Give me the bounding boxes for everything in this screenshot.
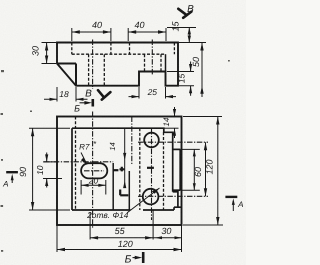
hidden line rib left [110,43,112,55]
dimension 20: extension lines [81,180,106,195]
hidden line right step [173,43,175,55]
svg-text:120: 120 [118,239,133,249]
svg-text:60: 60 [193,167,203,177]
svg-text:40: 40 [92,20,102,30]
front view outline [57,43,178,86]
hidden line recess left wall [71,43,73,55]
plan right flange slot right edge [179,149,181,190]
svg-text:14: 14 [108,142,117,150]
leader R7 [81,153,87,165]
dimension 25: dim line [129,96,177,98]
svg-text:В: В [187,4,194,15]
dimension 40 left: extension lines [72,28,111,41]
arrowheads [31,28,220,252]
arrow 50 dim [200,43,203,51]
section marker A left [6,172,18,183]
svg-text:30: 30 [161,226,171,236]
svg-text:A: A [237,200,243,209]
arrow 14 top right dim [173,109,176,117]
center line plan horizontal [44,161,113,163]
arrow 2 holes leader [152,188,160,194]
svg-text:R7: R7 [79,142,90,151]
dimension 120 bottom: dim line [57,249,182,251]
chamfer edge vertical [75,64,77,86]
arrow 14 middle dim [123,153,126,161]
dimension 14 top right: extension line [164,127,179,129]
arrow 40 right dim [128,30,136,33]
dimension 25: extension lines [139,87,166,99]
hidden line hole right [160,54,162,71]
hidden line slot left wall [88,54,90,85]
plan right flange slot bottom [173,189,181,191]
arrow 30 dim [45,43,48,51]
svg-text:30: 30 [31,46,41,56]
dimension 40 right: extension lines [128,28,166,41]
svg-text:90: 90 [18,167,28,177]
svg-text:14: 14 [162,117,171,126]
dimension 18: extension lines [57,87,76,102]
center line hole axis front [151,40,153,75]
center line oval horizontal [84,170,104,172]
dimension 10: dim line [46,153,48,188]
arrow 90 dim [31,128,34,136]
svg-text:120: 120 [205,159,215,174]
svg-text:55: 55 [115,226,126,236]
dimension 15 right: dim line [190,62,192,96]
plan hidden line right [163,132,165,210]
hole 2 circle [143,189,159,205]
center line holes axis plan [151,129,153,220]
svg-text:2отв. Ф14: 2отв. Ф14 [86,210,129,220]
svg-text:20: 20 [88,176,99,186]
arrow 18 dim [50,98,58,101]
arrow 15 right dim [189,64,192,72]
center line hole 2 horizontal [138,195,208,197]
arrow 25 dim [132,95,140,98]
view arrow B top [178,9,191,18]
section marker B top [80,99,93,107]
dimension 120 right: dim line [217,117,219,226]
leader 2 holes [128,188,160,213]
arrow 120 bottom dim [57,248,65,251]
plan right flange slot top [173,148,181,150]
plan right flange notch [173,192,182,207]
arrow 10 dim [45,154,48,162]
dimension 90: extension lines [29,128,70,210]
svg-text:18: 18 [59,89,69,99]
dimension 120 bottom: extension lines [56,225,58,252]
dimension 55: extension lines [90,211,153,240]
dimension 50: extension line [179,42,206,44]
arrow 55 dim [90,236,98,239]
dimension 14 middle: dim line [124,129,126,189]
section marker A right [225,197,237,211]
center line hole 1 horizontal [138,141,208,143]
chamfer edge horizontal [57,63,76,65]
plan view outer rectangle [57,117,182,226]
dimension 90: dim line [32,128,34,210]
dimension 40 right: dim line [128,31,166,33]
scan speckles [1,60,230,252]
dimension 18: dim line [44,98,88,100]
dimension 14 top right: dim line [174,107,176,138]
arrow R7 leader [81,158,87,165]
dimension 15 top right: dim line [188,28,190,43]
section marker B bottom [133,252,144,263]
dimension 30: dim line [46,43,48,64]
dimension 55: dim line [90,237,153,239]
arrow 30 bottom dim [155,236,162,239]
dimension 15 right: extension lines [167,72,194,86]
svg-text:25: 25 [147,87,158,97]
section jog mark 1 [120,167,125,172]
svg-text:Б: Б [74,104,80,114]
dimension 60: extension lines [180,149,200,190]
dimension 30 bottom: extension line [181,225,183,252]
dimension 50: dim line [201,43,203,98]
dimension 120 right: extension lines [183,117,223,226]
dimension 15 top right: extension line [167,27,196,29]
svg-text:50: 50 [191,57,201,67]
hidden line slot right wall [103,54,105,85]
center line slot axis front [92,40,94,90]
arrow 40 left dim [72,30,80,33]
dimension 20: dim line [81,184,106,186]
svg-text:15: 15 [171,21,181,32]
section jog mark 4 [147,167,154,169]
oval slot [81,163,107,178]
dimension 30 bottom: dim line [153,237,181,239]
arrow 20 dim [81,184,89,187]
dimension 30: extension lines [42,43,57,64]
section jog edge left [112,163,114,210]
hidden line recess floor [72,53,165,55]
hidden line rib right [129,43,131,55]
dimension 60: dim line [194,142,205,196]
dimension 40 left: dim line [72,31,111,33]
dimension 10: extension lines [43,162,62,179]
svg-text:В: В [85,89,92,100]
hidden line hole left [144,54,146,71]
center line section jog axis [131,117,133,166]
arrow 120 right dim [216,117,219,125]
arrow 15 top dim [188,28,191,35]
plan inner recess contour [72,128,174,210]
center line slot axis plan [92,112,94,229]
arrow 60 dim [204,142,207,150]
section jog edge right [128,171,130,210]
svg-text:A: A [2,179,8,188]
hole 1 circle [144,133,159,148]
plan hidden line section jog [139,128,141,210]
svg-text:Б: Б [125,254,132,265]
section jog mark 2 [113,169,119,171]
svg-text:15: 15 [177,74,187,84]
svg-text:40: 40 [134,20,144,30]
view arrow B bottom [98,90,110,99]
section jog mark 3 [120,190,128,196]
scan grain overlay [0,0,246,265]
plan hidden chamfer line [75,117,77,211]
svg-text:10: 10 [35,165,45,175]
notch right wall upper part [165,54,167,71]
